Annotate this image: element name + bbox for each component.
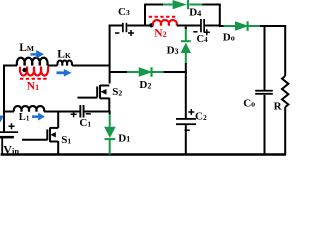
current arrow (blue) on left rail pointing down [0, 116, 4, 123]
svg-text:C1: C1 [79, 117, 91, 129]
source Vin: + sign [9, 123, 15, 129]
wire: middle vertical x=109.6 (C3 node down to S2 drain) [109, 25, 111, 84]
diode D3 (green, vertical pointing up) with leads [181, 26, 191, 73]
C1 minus sign [86, 113, 91, 115]
svg-text:D2: D2 [139, 79, 151, 91]
wire: C3 wire (y=25.5) [109, 25, 123, 27]
polarity dot N1 [22, 68, 26, 72]
resistor R (zigzag) [282, 76, 288, 107]
svg-text:LM: LM [19, 42, 34, 54]
diode D2 (green, pointing right) [127, 67, 164, 77]
wire: between LM and LK [48, 65, 58, 67]
wire: L1 to C1 [44, 111, 80, 113]
winding N2 (red) [153, 20, 177, 25]
wire: right rail lower [284, 107, 286, 155]
diode D0 (green, pointing right) [224, 21, 260, 31]
svg-text:D1: D1 [118, 132, 130, 144]
wire: D2 wire (y=72) [110, 71, 127, 73]
wire: N2 to C4 [177, 25, 201, 27]
wire: top wire (y=4.5) [144, 4, 163, 6]
wire: riser left (x=145) [144, 5, 146, 27]
svg-text:Co: Co [243, 98, 255, 110]
svg-text:S1: S1 [61, 134, 71, 146]
svg-text:D3: D3 [167, 45, 179, 57]
wire: riser right (x=219.8) [219, 5, 221, 27]
capacitor C0 plates [255, 90, 273, 92]
diode D4 (green, on top wire) [163, 0, 202, 9]
wire: left rail below battery to bottom rail [1, 138, 3, 155]
wire: bottom rail [1, 153, 286, 155]
svg-text:D4: D4 [189, 7, 201, 19]
wire: top wire from LM to coupled inductor (y=65.5) [4, 65, 18, 67]
wire: C3 to riser [127, 25, 146, 27]
svg-text:L1: L1 [19, 112, 30, 123]
wire: C2 branch vertical lower [185, 125, 187, 155]
polarity dot N2 [149, 23, 153, 27]
C4 minus sign [193, 31, 197, 33]
inductor LK winding [57, 61, 72, 66]
wire: top wire after D4 to right riser [202, 4, 221, 6]
svg-text:Do: Do [223, 32, 235, 44]
transistor S1 (MOSFET) [22, 111, 58, 156]
winding N1 (red, secondary below LM) [20, 67, 48, 76]
S1 arrow [50, 132, 56, 137]
current arrow (blue) after L1 [32, 113, 45, 121]
wire: D0 wire (y=26) [219, 25, 228, 27]
source Vin: short plate [0, 136, 14, 139]
wire: D0 to output node [260, 25, 286, 27]
C1 plus sign [71, 111, 77, 117]
wire: C2 branch vertical upper [185, 72, 187, 119]
capacitor C4 plates [200, 19, 202, 32]
svg-text:N2: N2 [154, 28, 166, 40]
wire: D2 to C2 node [164, 71, 187, 73]
svg-text:LK: LK [57, 49, 71, 61]
wire: C4 to riser right [205, 25, 221, 27]
wire: right rail upper (to R) [284, 25, 286, 76]
wire: C0 branch vertical lower [264, 95, 266, 155]
C2 minus sign [185, 129, 190, 131]
C4 plus sign [204, 29, 210, 35]
core line N1 (red dashed) [20, 78, 48, 80]
svg-text:S2: S2 [112, 86, 122, 98]
capacitor C1 plates [79, 105, 81, 118]
current arrow (blue) after LM label [31, 50, 45, 59]
svg-text:C4: C4 [197, 34, 209, 45]
C3 plus sign [128, 30, 134, 36]
core line N2 (red dashed) [149, 16, 176, 18]
wire: C1 to D1/S2 node [85, 111, 111, 113]
C2 plus sign [188, 109, 194, 115]
inductor LM winding [17, 58, 48, 66]
svg-text:C2: C2 [195, 110, 207, 122]
transistor S2 (MOSFET) [78, 85, 110, 112]
diode D1 (green, vertical pointing down) with leads [104, 111, 116, 155]
svg-text:R: R [274, 101, 283, 113]
source Vin: long plate [0, 131, 18, 133]
S2 arrow [100, 89, 106, 95]
svg-text:C3: C3 [118, 6, 130, 18]
C3 minus sign [115, 32, 120, 34]
wire: LK to middle vertical [72, 65, 110, 67]
svg-text:N1: N1 [27, 81, 39, 93]
capacitor C2 plates [176, 118, 196, 120]
wire: N2 wire from riser junction (y=25.5) [144, 25, 153, 27]
wire: C0 branch vertical upper [264, 26, 266, 91]
wire: L1/C1 wire from left rail (y=111.5) [4, 111, 15, 113]
wire: left rail top (x=4, y65.5 to battery) [3, 65, 5, 132]
capacitor C3 plates [122, 23, 124, 32]
inductor L1 winding [14, 106, 44, 111]
current arrow (blue) below LK [57, 69, 72, 77]
